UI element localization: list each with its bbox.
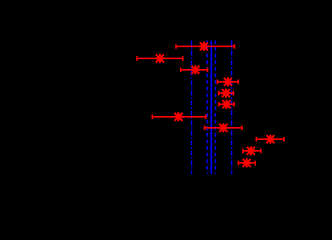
data point 5 error bar (219, 91, 234, 96)
data point 4 error bar (217, 80, 238, 85)
data point 9 asterisk marker (266, 135, 275, 144)
data point 10 asterisk marker (246, 146, 255, 155)
vertical line upper 2-sigma (dash-dot) (231, 41, 233, 174)
vertical line upper 1-sigma (dashed) (214, 41, 216, 174)
vertical line central value (solid) (210, 41, 212, 174)
data point 7 asterisk marker (174, 112, 183, 121)
data point 1 asterisk marker (199, 42, 208, 51)
data point 11 error bar (238, 161, 255, 166)
data point 6 asterisk marker (222, 100, 231, 109)
data point 4 asterisk marker (223, 77, 232, 86)
data point 6 error bar (219, 102, 234, 107)
data point 1 error bar (176, 44, 235, 49)
data point 11 asterisk marker (242, 158, 251, 167)
data point 8 error bar (205, 126, 242, 131)
data point 5 asterisk marker (221, 89, 230, 98)
data point 7 error bar (152, 115, 206, 120)
data point 3 asterisk marker (191, 65, 200, 74)
data point 2 error bar (137, 56, 183, 61)
data point 8 asterisk marker (219, 123, 228, 132)
data point 3 error bar (181, 68, 208, 73)
data point 2 asterisk marker (155, 54, 164, 63)
vertical line lower 2-sigma (dash-dot) (191, 41, 193, 174)
data point 10 error bar (243, 149, 261, 154)
vertical line lower 1-sigma (dashed) (206, 41, 208, 174)
data point 9 error bar (256, 137, 284, 142)
